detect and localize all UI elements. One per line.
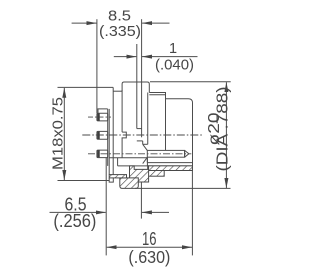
svg-text:(.256): (.256)	[53, 211, 96, 231]
svg-text:(.335): (.335)	[99, 23, 141, 40]
svg-text:1: 1	[169, 41, 177, 57]
svg-text:(DIA .788): (DIA .788)	[215, 87, 232, 172]
svg-text:(.040): (.040)	[155, 57, 194, 74]
svg-text:M18x0.75: M18x0.75	[50, 97, 67, 170]
svg-text:(.630): (.630)	[128, 247, 170, 267]
svg-text:8.5: 8.5	[108, 7, 131, 24]
